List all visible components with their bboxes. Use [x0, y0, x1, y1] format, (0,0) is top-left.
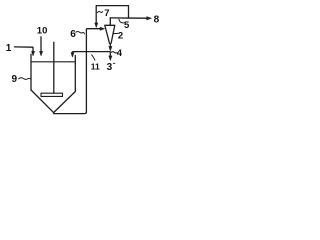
- leader dot for 3: [113, 62, 115, 64]
- return line 4 (cyclone underflow to vessel): [72, 52, 110, 56]
- discharge line 3: [109, 52, 111, 56]
- svg-text:8: 8: [154, 15, 160, 26]
- cyclone 2 body: [105, 25, 115, 43]
- svg-text:4: 4: [117, 48, 123, 59]
- svg-text:7: 7: [104, 8, 109, 19]
- arrowhead line 6 into cyclone: [100, 27, 105, 30]
- leader dash for 2: [114, 32, 118, 34]
- arrowhead discharge 3: [109, 56, 112, 61]
- svg-text:9: 9: [12, 74, 18, 85]
- svg-text:2: 2: [118, 31, 123, 42]
- svg-text:3: 3: [107, 62, 113, 73]
- svg-text:5: 5: [124, 20, 130, 31]
- agitator shaft: [53, 42, 55, 93]
- arrowhead feed-1 into vessel: [32, 51, 35, 56]
- arrowhead loop 7 onto line 6: [95, 23, 98, 28]
- arrowhead feed-10 into vessel: [40, 51, 43, 56]
- arrowhead outlet 8: [147, 17, 152, 20]
- vessel 9 cone right side: [54, 92, 76, 113]
- vessel 9 liquid level line: [31, 61, 75, 63]
- cyclone outlet arrow: [109, 44, 111, 47]
- vapor line 6 (junction to cyclone inlet): [86, 28, 100, 31]
- leader tilde for 6: [76, 31, 85, 33]
- svg-text:11: 11: [91, 61, 100, 71]
- riser line 11 (cone apex to junction): [54, 30, 87, 114]
- leader tilde for 9: [19, 78, 31, 80]
- vessel 9 cone left side: [31, 90, 54, 113]
- recycle loop 7: [96, 6, 128, 24]
- vessel 9 left wall: [30, 54, 32, 90]
- svg-text:10: 10: [37, 26, 48, 37]
- vessel 9 right wall: [74, 56, 76, 92]
- svg-text:6: 6: [70, 29, 76, 40]
- arrowhead return into vessel: [71, 53, 74, 57]
- wire feed-1: [15, 47, 34, 52]
- leader for 11: [92, 55, 95, 60]
- overhead line 5 to outlet 8: [110, 17, 146, 19]
- wire feed-10: [40, 37, 42, 52]
- agitator paddle: [41, 93, 63, 96]
- svg-text:1: 1: [6, 43, 12, 54]
- leader tilde for 7: [97, 12, 102, 13]
- leader tilde for 5: [119, 19, 124, 23]
- leader tilde for 4: [111, 52, 117, 53]
- cyclone vortex stub: [109, 18, 111, 25]
